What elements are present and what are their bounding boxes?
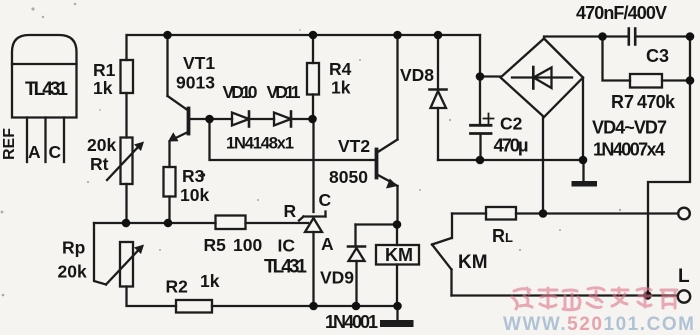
svg-text:REF: REF [1,128,18,160]
wire bridge bottom vertex down [542,117,544,214]
svg-text:Rp: Rp [62,238,85,258]
svg-text:VD10: VD10 [223,82,258,102]
node bridge ground [579,156,588,165]
diode VD9 [348,225,365,307]
wire R3 to node [168,197,170,224]
svg-text:TL431: TL431 [25,79,68,100]
svg-text:C2: C2 [500,114,523,134]
wire node row left [94,222,216,224]
node VT2 emitter KM [393,220,402,229]
TO-92 package outline TL431 [12,35,77,118]
capacitor C3 [629,29,690,45]
relay coil KM [376,225,419,307]
resistor R5 [216,216,246,230]
wire R7 right [662,79,690,81]
svg-text:A: A [28,142,41,162]
wire VT2 collector [396,35,398,140]
wire ground rail mid [438,159,583,161]
potentiometer Rp [106,242,144,287]
node mains L [643,291,652,300]
node top rail VT2 [393,31,402,40]
svg-text:R2: R2 [166,277,189,297]
switch KM contact [432,214,452,296]
transistor VT2 [377,140,398,189]
wire bottom mains [452,294,678,296]
wire left column drop to R1 [125,35,127,60]
wire Rt to node [125,184,127,223]
svg-text:1k: 1k [93,78,113,98]
node top rail VD8 [434,31,443,40]
wire R1 to Rt [125,93,127,138]
svg-text:R4: R4 [329,59,352,79]
wire R4 bottom to diode row [312,95,314,120]
node C2 top [476,72,485,81]
node R7 right [686,76,695,85]
svg-text:VD4~VD7: VD4~VD7 [592,118,667,138]
svg-text:IC: IC [278,236,296,256]
node VD9 anode [352,302,361,311]
resistor RL [486,207,516,220]
wire bridge right vertex to ground [582,78,584,161]
svg-text:R1: R1 [93,60,116,80]
wire RL row [452,212,486,214]
ground under KM [380,306,414,327]
resistor R2 [176,300,212,313]
svg-text:470µ: 470µ [494,135,529,156]
svg-text:VT2: VT2 [338,136,370,156]
node C3 left [598,32,607,41]
resistor R7 [630,74,662,88]
node VD11 R4 [308,115,317,124]
node bridge RL [539,209,548,218]
bridge rectifier VD4-VD7 [501,39,584,118]
wire VT1 collector [166,35,168,96]
svg-text:WWW.520101.COM: WWW.520101.COM [503,314,694,335]
wire VT2 emitter down [396,186,398,225]
svg-text:R5: R5 [204,235,227,255]
wire bottom rail [212,305,398,307]
svg-text:20k: 20k [58,262,87,282]
wire VD9 top link [356,223,398,225]
svg-text:C: C [319,190,332,210]
node VT1 base [205,115,214,124]
svg-text:1N4007x4: 1N4007x4 [593,140,665,160]
svg-text:10k: 10k [180,185,209,205]
wire VT1 emitter to R3 [168,142,170,168]
IC TL431 shunt regulator symbol [299,212,326,307]
node Rt Rp [122,219,131,228]
svg-text:100: 100 [233,235,262,255]
thermistor Rt [107,138,144,185]
svg-text:C3: C3 [646,46,669,66]
wire VD11 to R4 column [291,118,313,120]
ground under bridge [572,160,598,187]
svg-text:A: A [321,234,334,254]
wire VD10 to VD11 [249,118,274,120]
svg-text:1N4148x1: 1N4148x1 [226,135,294,153]
node top rail VT1 [163,31,172,40]
resistor R4 [307,63,319,95]
diode VD10 [232,112,249,127]
transistor VT1 [168,96,233,142]
wire RL to terminal [516,212,678,214]
svg-text:C: C [49,142,62,162]
svg-text:1k: 1k [331,78,351,98]
svg-text:KM: KM [385,245,413,265]
svg-text:R3: R3 [182,166,205,186]
node R3 R5 [164,219,173,228]
wire top rail [128,34,480,36]
TO-92 pin legs [27,118,64,163]
resistor R1 [121,60,134,93]
node C3 right [686,32,695,41]
terminal circle upper [678,208,690,220]
svg-text:L: L [678,266,690,287]
svg-text:VD9: VD9 [320,268,354,288]
svg-text:VD11: VD11 [267,82,301,102]
diode VD8 [430,35,447,160]
node TL431 anode [309,302,318,311]
svg-text:TL431: TL431 [264,257,307,278]
wire base node down and across to VT2 [210,119,377,160]
capacitor C2 [471,114,494,161]
svg-text:470k: 470k [637,92,676,112]
wire R4 top [312,35,314,63]
terminal circle L [678,290,690,302]
svg-text:VT1: VT1 [183,53,215,73]
svg-text:Rt: Rt [90,154,109,174]
wire C2 top to bridge left vertex [480,75,501,77]
wire Rp bottom to R2 [127,287,177,307]
wire R5 node to R5 [246,222,309,224]
diode VD11 [274,112,291,127]
node top rail R4 [309,31,318,40]
wire cathode column to TL431 [312,119,314,212]
wire Rp wiper bracket [94,223,106,285]
svg-text:20k: 20k [87,135,116,155]
svg-text:8050: 8050 [329,167,368,187]
resistor R3 [164,167,176,197]
svg-text:1N4001: 1N4001 [325,312,378,332]
svg-text:9013: 9013 [176,73,215,93]
wire bridge top to C3 loop [544,37,628,39]
svg-text:RL: RL [492,226,513,246]
svg-text:VD8: VD8 [400,65,434,85]
svg-text:R7: R7 [611,92,634,112]
watermark [503,288,694,335]
node C2 bottom [476,156,485,165]
wire C3R7 left link [603,37,631,81]
svg-text:R: R [284,201,297,221]
svg-text:KM: KM [458,252,488,273]
svg-text:470nF/400V: 470nF/400V [576,3,667,23]
svg-text:1k: 1k [200,271,220,291]
label R3 tick [202,173,205,176]
node KM ground [393,302,402,311]
wire top rail corner down [479,35,481,125]
wire right edge down to corner [648,37,690,296]
